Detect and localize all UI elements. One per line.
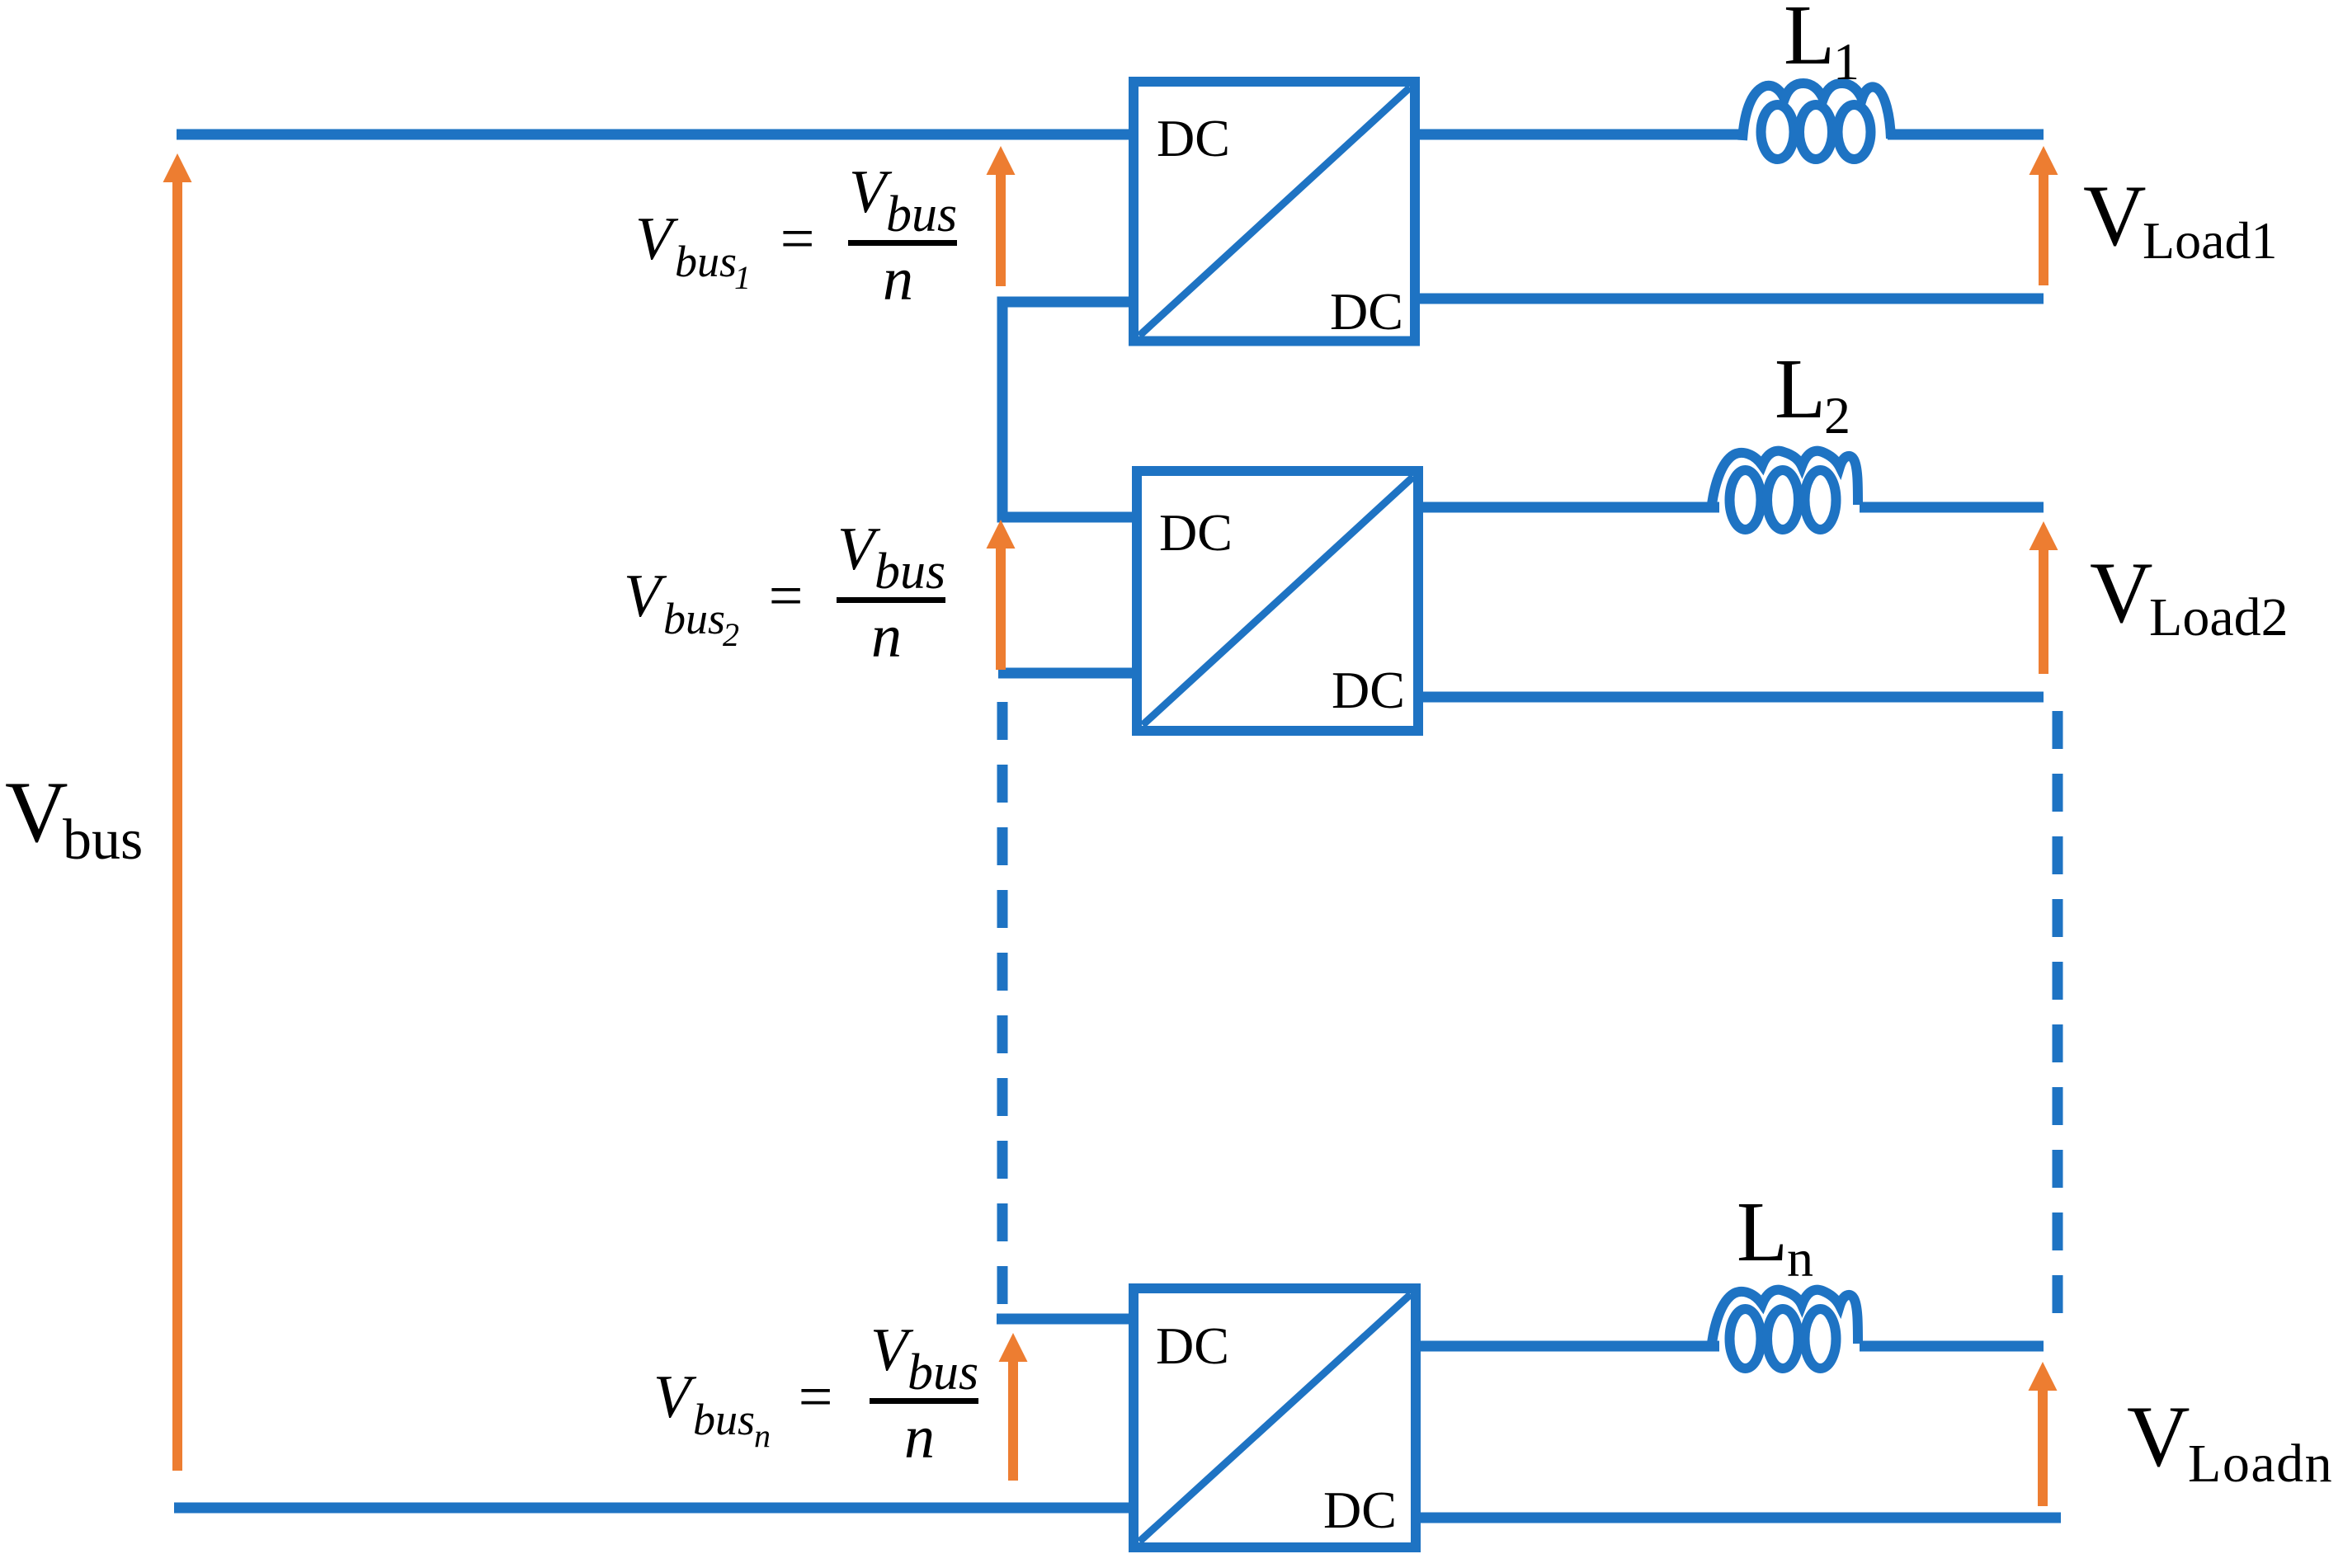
converter Un DC/DC box: [1134, 1288, 1416, 1547]
label V_Loadn: [2127, 1388, 2333, 1494]
svg-text:2: 2: [1824, 386, 1850, 445]
svg-text:1: 1: [1833, 32, 1860, 91]
label formula V_busn = V_bus / n: [653, 1316, 978, 1471]
svg-text:2: 2: [723, 616, 739, 653]
svg-text:n: n: [871, 603, 902, 671]
svg-text:V: V: [5, 764, 68, 860]
svg-text:bus: bus: [63, 808, 143, 872]
svg-text:bus: bus: [675, 237, 737, 286]
svg-text:bus: bus: [886, 186, 957, 242]
label Ln: [1737, 1184, 1813, 1288]
label formula V_bus1 = V_bus / n: [635, 158, 957, 313]
arrow V_bus: [163, 153, 192, 1471]
svg-text:DC: DC: [1323, 1481, 1397, 1539]
label formula V_bus2 = V_bus / n: [624, 516, 945, 671]
label V_Load2: [2090, 544, 2289, 647]
svg-text:V: V: [624, 563, 667, 630]
svg-text:V: V: [2090, 544, 2153, 641]
svg-text:V: V: [2127, 1388, 2190, 1485]
arrow V_Loadn: [2029, 1362, 2058, 1506]
svg-text:DC: DC: [1156, 1316, 1229, 1375]
arrow V_bus1: [987, 146, 1016, 286]
wire converter-n top output to inductor Ln: [1416, 1341, 1719, 1352]
wire inductor L1 to load1 top: [1888, 129, 2044, 140]
arrow V_Load1: [2029, 146, 2058, 285]
svg-text:n: n: [754, 1417, 771, 1454]
svg-text:Loadn: Loadn: [2188, 1434, 2333, 1494]
label V_bus: [5, 764, 143, 872]
arrow V_bus2: [987, 520, 1016, 670]
svg-text:n: n: [883, 246, 913, 313]
label V_Load1: [2083, 167, 2278, 270]
wire converter1 lower-left input, vertical connector, converter2 upper-left input: [1002, 302, 1137, 517]
svg-text:V: V: [635, 205, 679, 273]
svg-text:DC: DC: [1157, 109, 1230, 167]
wire inductor L2 to load2 top: [1860, 502, 2044, 513]
label L1: [1784, 0, 1860, 91]
svg-text:=: =: [776, 205, 818, 273]
converter U2 DC/DC box: [1137, 471, 1418, 731]
svg-text:n: n: [904, 1404, 935, 1471]
wire dashed vertical middle: [997, 702, 1008, 1305]
svg-text:V: V: [2083, 167, 2147, 264]
svg-text:DC: DC: [1330, 282, 1403, 341]
inductor L1: [1742, 83, 1891, 159]
label L2: [1775, 341, 1850, 445]
svg-text:L: L: [1775, 341, 1826, 436]
wire bottom bus: [174, 1503, 1138, 1514]
svg-text:bus: bus: [874, 544, 945, 600]
wire converter2 top output to inductor L2: [1418, 502, 1719, 513]
converter U1 DC/DC box: [1134, 82, 1415, 341]
wire load-n bottom: [1416, 1513, 2061, 1523]
svg-text:L: L: [1784, 0, 1835, 82]
arrow V_busn: [999, 1333, 1028, 1481]
wire load2 bottom: [1418, 692, 2044, 703]
svg-text:DC: DC: [1159, 503, 1233, 562]
arrow V_Load2: [2029, 521, 2058, 674]
wire top bus: [177, 129, 1138, 140]
wire converter2 lower-left input: [998, 668, 1137, 679]
wire converter-n top-left input: [997, 1314, 1137, 1325]
svg-text:bus: bus: [693, 1395, 755, 1444]
wire dashed vertical right: [2053, 711, 2063, 1328]
svg-text:1: 1: [734, 259, 751, 296]
svg-text:Load2: Load2: [2149, 587, 2289, 647]
svg-text:n: n: [1787, 1229, 1813, 1288]
svg-text:=: =: [765, 563, 806, 630]
svg-text:L: L: [1737, 1184, 1788, 1279]
wire converter1 top output to inductor L1: [1415, 129, 1747, 140]
wire load1 bottom: [1415, 294, 2044, 304]
svg-text:DC: DC: [1332, 661, 1405, 719]
inductor Ln: [1711, 1290, 1858, 1368]
svg-text:=: =: [794, 1363, 836, 1431]
svg-text:bus: bus: [663, 594, 725, 643]
wire inductor Ln to load-n top: [1860, 1341, 2044, 1352]
svg-text:bus: bus: [907, 1344, 978, 1401]
inductor L2: [1711, 451, 1858, 530]
svg-text:V: V: [653, 1363, 697, 1431]
svg-text:Load1: Load1: [2143, 211, 2278, 270]
